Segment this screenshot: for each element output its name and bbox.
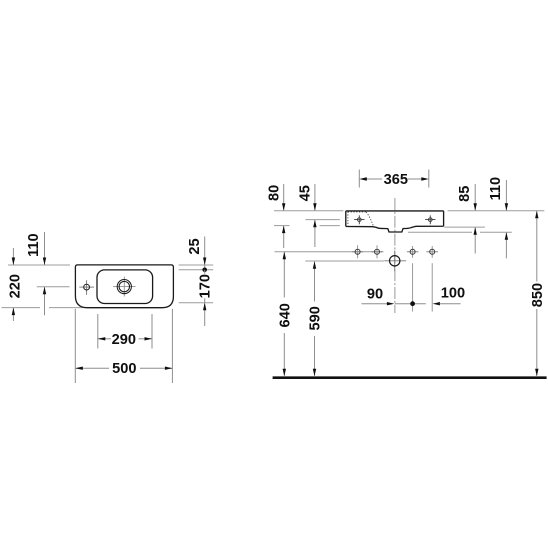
faucet hole plan xyxy=(84,284,90,290)
hidden lines (dotted) xyxy=(347,212,349,227)
drain bottom extension right xyxy=(408,231,472,233)
dimension 500 (plan bottom) xyxy=(75,309,172,383)
left faucet cross elevation xyxy=(354,215,364,224)
drain circle elevation cross xyxy=(384,260,406,262)
dimension 365 xyxy=(359,170,429,189)
drain level extension left xyxy=(305,260,384,262)
apron bottom extension right xyxy=(444,226,485,228)
hole 3 extension down xyxy=(412,263,414,311)
dimension 85 xyxy=(457,184,477,254)
svg-text:590: 590 xyxy=(308,306,324,330)
centerline xyxy=(394,198,396,313)
svg-text:170: 170 xyxy=(198,274,214,298)
drain plan cross xyxy=(113,286,136,288)
dimension 220 (plan left) xyxy=(8,248,24,321)
ground line xyxy=(273,376,547,379)
right faucet cross elevation xyxy=(425,215,435,224)
fixing hole 2 xyxy=(371,251,382,253)
svg-text:500: 500 xyxy=(112,361,136,377)
drain circle elevation xyxy=(390,256,400,266)
dimension 45 xyxy=(298,184,317,247)
dimension 110 (plan left) xyxy=(26,232,46,315)
svg-text:365: 365 xyxy=(384,172,408,188)
svg-text:80: 80 xyxy=(266,185,282,201)
fixing hole 3 xyxy=(407,251,419,253)
hole 4 extension down xyxy=(431,263,433,311)
dimension 850 xyxy=(530,211,546,376)
svg-text:90: 90 xyxy=(367,287,383,303)
faucet level extension left xyxy=(305,219,339,221)
reference line basin top xyxy=(274,210,343,212)
svg-text:290: 290 xyxy=(112,332,136,348)
basin profile outline xyxy=(346,211,444,232)
extension line top edge left xyxy=(8,264,70,266)
plan outline xyxy=(75,265,173,308)
svg-text:25: 25 xyxy=(187,238,203,254)
fixing hole 1 xyxy=(352,251,363,253)
fixing hole 4 xyxy=(426,251,438,253)
dimension 25 (plan right) xyxy=(187,237,207,273)
drain plan xyxy=(117,280,131,294)
dimension 290 (plan bottom) xyxy=(98,314,152,349)
dimension 110 (elevation right) xyxy=(488,177,508,258)
svg-text:850: 850 xyxy=(530,283,546,307)
svg-text:640: 640 xyxy=(277,303,293,327)
dimension 640 xyxy=(277,252,293,377)
extension lines right of plan xyxy=(179,264,214,266)
svg-text:220: 220 xyxy=(8,274,24,298)
svg-text:110: 110 xyxy=(488,177,504,201)
svg-text:45: 45 xyxy=(298,185,314,201)
dimension 80 xyxy=(266,184,285,248)
extension line bottom edge xyxy=(2,307,41,309)
apron bottom extension left xyxy=(274,225,290,227)
svg-text:100: 100 xyxy=(441,286,465,302)
inner basin xyxy=(97,270,153,304)
dimension 590 xyxy=(308,261,324,376)
svg-text:85: 85 xyxy=(457,186,473,202)
dimension 170 (plan right) xyxy=(198,270,214,326)
extension line faucet level left xyxy=(37,286,70,288)
faucet hole plan cross xyxy=(79,286,94,288)
dimension 90 / 100 xyxy=(362,286,466,306)
svg-text:110: 110 xyxy=(26,233,42,257)
fixing holes row extension xyxy=(275,251,384,253)
